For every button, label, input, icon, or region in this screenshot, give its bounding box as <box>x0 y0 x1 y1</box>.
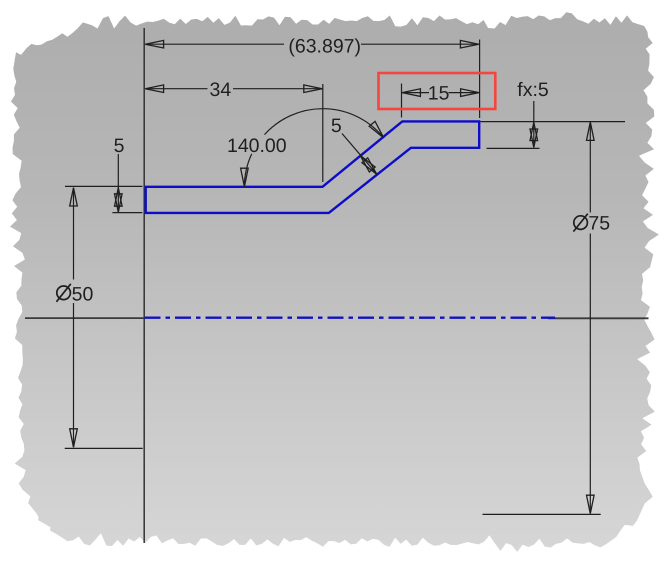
blue centerline dash-dot <box>145 317 556 319</box>
dimension fx:5 <box>481 79 626 148</box>
svg-text:140.00: 140.00 <box>227 135 287 157</box>
red highlight rectangle <box>379 73 496 109</box>
dimension 140.00 angle <box>227 109 387 187</box>
svg-text:75: 75 <box>588 213 610 235</box>
dimension 34 <box>145 79 323 182</box>
dimension 5 left <box>65 135 142 213</box>
horizontal axis line right segment <box>548 317 649 319</box>
dimension diameter 75 <box>483 122 611 514</box>
dimension diameter 50 <box>56 188 142 449</box>
horizontal axis line left segment <box>25 317 145 319</box>
svg-text:fx:5: fx:5 <box>517 79 549 101</box>
svg-text:5: 5 <box>331 115 342 137</box>
svg-text:34: 34 <box>210 79 232 101</box>
svg-text:15: 15 <box>428 83 450 105</box>
dimension 15 <box>402 83 480 118</box>
svg-text:5: 5 <box>114 135 125 157</box>
blue profile outline <box>146 121 480 212</box>
dimension 5 mid (wall thickness) <box>331 115 380 177</box>
vertical axis line <box>143 28 145 543</box>
svg-text:(63.897): (63.897) <box>288 35 361 57</box>
svg-text:50: 50 <box>72 283 94 305</box>
dimension (63.897) <box>145 35 479 118</box>
